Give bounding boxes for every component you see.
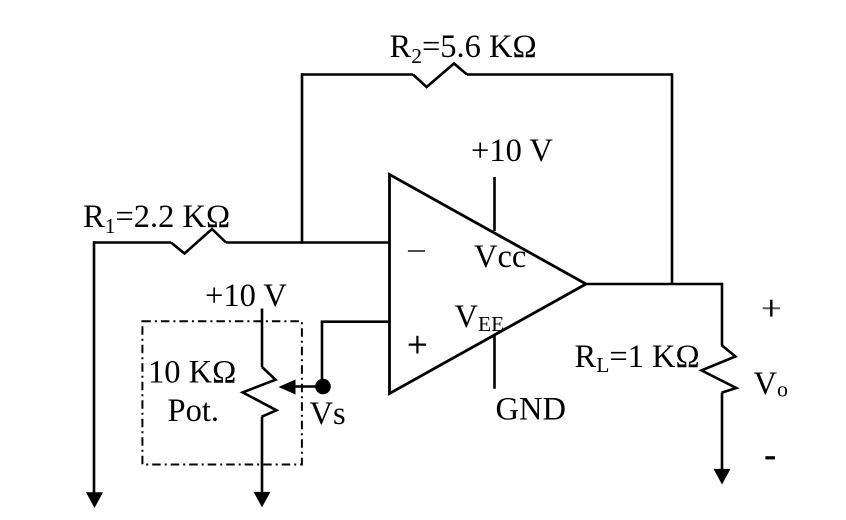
- wire: [721, 393, 724, 470]
- label + output: [763, 300, 780, 317]
- svg-text:R2=5.6 KΩ: R2=5.6 KΩ: [390, 29, 537, 68]
- ground arrow pot: [254, 492, 271, 507]
- node Vs dot: [315, 379, 331, 395]
- resistor R2: [413, 64, 467, 88]
- resistor R1: [171, 229, 226, 254]
- svg-text:RL=1 KΩ: RL=1 KΩ: [575, 339, 700, 377]
- wire: [94, 241, 171, 244]
- resistor RL: [702, 345, 737, 393]
- label - output: [765, 456, 775, 459]
- svg-text:+10 V: +10 V: [471, 133, 553, 169]
- svg-text:R1=2.2 KΩ: R1=2.2 KΩ: [83, 199, 230, 238]
- op-amp U1: [390, 175, 587, 394]
- wire plus input: [321, 320, 390, 323]
- wire: [226, 241, 390, 244]
- svg-text:GND: GND: [496, 392, 566, 428]
- potentiometer box: [142, 321, 302, 464]
- svg-text:10 KΩ: 10 KΩ: [148, 355, 236, 391]
- wire: [721, 283, 724, 345]
- wire: [301, 73, 304, 244]
- svg-text:+10 V: +10 V: [205, 278, 287, 314]
- svg-text:Vo: Vo: [754, 366, 788, 402]
- wire: [671, 73, 674, 284]
- ground arrow RL: [714, 469, 731, 485]
- wire: [261, 417, 264, 493]
- wire: [321, 322, 324, 380]
- ground arrow left: [86, 492, 103, 508]
- svg-text:VEE: VEE: [455, 299, 505, 336]
- wire GND: [493, 335, 496, 389]
- wire: [302, 73, 413, 76]
- op-amp plus input label: [409, 336, 426, 354]
- potentiometer 10K: [243, 367, 277, 417]
- wire: [93, 241, 96, 494]
- svg-text:Vs: Vs: [310, 396, 346, 432]
- wire: [261, 309, 264, 368]
- op-amp minus input label: [408, 250, 425, 252]
- wiper arrow: [293, 385, 320, 388]
- svg-text:Vcc: Vcc: [474, 239, 526, 275]
- wire output: [586, 283, 722, 286]
- svg-text:Pot.: Pot.: [168, 393, 219, 429]
- wire Vcc supply: [493, 177, 496, 231]
- wire: [467, 73, 672, 76]
